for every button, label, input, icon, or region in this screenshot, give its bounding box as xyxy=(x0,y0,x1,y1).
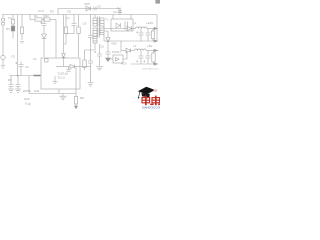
svg-text:TO-3: TO-3 xyxy=(58,76,65,80)
svg-text:R3: R3 xyxy=(50,10,54,14)
svg-text:C12: C12 xyxy=(24,97,30,101)
svg-text:C2: C2 xyxy=(25,65,29,69)
svg-text:VD5: VD5 xyxy=(84,2,90,6)
svg-text:C10: C10 xyxy=(38,9,44,13)
svg-text:U1: U1 xyxy=(33,57,37,61)
svg-text:C5: C5 xyxy=(97,5,101,9)
svg-text:PC817: PC817 xyxy=(112,50,122,54)
svg-text:C1: C1 xyxy=(66,16,70,20)
svg-text:www.dgzj.com: www.dgzj.com xyxy=(142,67,159,71)
svg-text:R1: R1 xyxy=(34,14,38,18)
svg-text:R8: R8 xyxy=(80,96,84,100)
svg-text:C8: C8 xyxy=(67,10,71,14)
svg-text:C6: C6 xyxy=(100,45,104,49)
svg-text:C11: C11 xyxy=(34,89,40,93)
svg-text:R2: R2 xyxy=(45,14,49,18)
svg-text:VD6: VD6 xyxy=(111,42,117,46)
svg-text:C2 R2: C2 R2 xyxy=(113,10,122,14)
svg-text:2CTS: 2CTS xyxy=(23,89,31,93)
svg-text:C9: C9 xyxy=(83,22,87,26)
svg-text:+12V: +12V xyxy=(146,21,153,25)
svg-text:L1: L1 xyxy=(133,21,137,25)
svg-text:+5V: +5V xyxy=(147,44,152,48)
svg-text:L2: L2 xyxy=(133,44,137,48)
svg-text:R0: R0 xyxy=(8,78,12,82)
svg-text:RV: RV xyxy=(6,27,10,31)
svg-text:DIANGON.COM: DIANGON.COM xyxy=(142,105,160,109)
svg-text:0.1μ: 0.1μ xyxy=(25,102,31,106)
svg-text:R10: R10 xyxy=(121,62,127,66)
svg-text:FU: FU xyxy=(8,16,12,20)
svg-text:C9: C9 xyxy=(11,55,15,59)
svg-text:T1: T1 xyxy=(105,18,109,22)
